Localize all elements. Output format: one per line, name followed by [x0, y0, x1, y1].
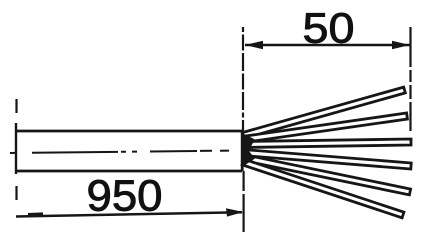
svg-text:50: 50	[303, 5, 355, 52]
svg-text:950: 950	[87, 173, 163, 221]
